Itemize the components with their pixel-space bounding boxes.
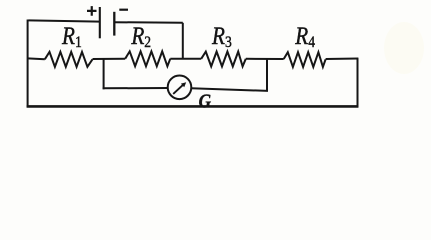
label R4 bbox=[294, 22, 315, 51]
resistor R2 bbox=[125, 51, 170, 66]
resistor R1 bbox=[45, 52, 93, 67]
resistor R3 bbox=[201, 52, 246, 67]
wire R4 to right rail bbox=[326, 58, 359, 61]
wire left rail to R1 bbox=[28, 57, 45, 60]
wire battery negative to right drop bbox=[114, 21, 183, 24]
label R1 bbox=[61, 22, 82, 51]
wire R1 to R2 with G tap node bbox=[93, 58, 126, 60]
label G bbox=[199, 90, 212, 113]
resistor R4 bbox=[284, 52, 326, 67]
battery minus sign bbox=[119, 9, 128, 11]
wire G branch left vertical bbox=[103, 59, 105, 90]
left rail wire bbox=[27, 20, 29, 108]
wire G branch right vertical bbox=[266, 59, 268, 91]
wire top-left from battery to left rail bbox=[29, 20, 101, 21]
label R2 bbox=[130, 22, 151, 51]
wire G to right branch bbox=[191, 88, 268, 91]
bottom wire bbox=[27, 105, 359, 108]
right rail wire bbox=[357, 58, 359, 107]
galvanometer G bbox=[168, 76, 192, 100]
background blotch bbox=[0, 0, 431, 127]
svg-text:G: G bbox=[199, 90, 212, 113]
wire battery drop to main node between R2 and R3 bbox=[182, 23, 184, 59]
label R3 bbox=[211, 22, 232, 51]
battery plus sign bbox=[87, 6, 97, 16]
wire R3 to R4 with G tap node bbox=[246, 58, 284, 60]
wire G branch left horizontal bbox=[103, 87, 168, 89]
battery negative plate (short) bbox=[113, 12, 115, 36]
wire R2 to R3 through battery node bbox=[170, 58, 201, 60]
battery positive plate (long) bbox=[99, 7, 101, 38]
